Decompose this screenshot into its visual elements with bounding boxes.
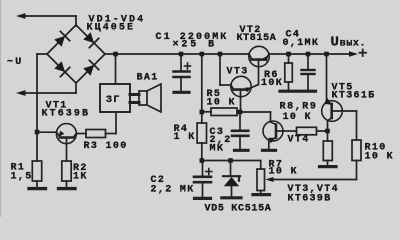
- svg-text:10 К: 10 К: [283, 112, 312, 123]
- svg-text:VT3: VT3: [227, 67, 249, 78]
- capacitor C4: [302, 54, 315, 90]
- svg-text:вых.: вых.: [340, 39, 366, 50]
- svg-text:10 К: 10 К: [207, 98, 236, 109]
- arrow R7 wiper: [265, 177, 273, 182]
- node rail C2: [200, 158, 205, 163]
- box ZG generator: [100, 84, 130, 112]
- resistor R9 vertical: [323, 131, 332, 165]
- resistor R5: [202, 108, 240, 116]
- svg-text:1,5: 1,5: [11, 172, 33, 183]
- diode VD4: [83, 60, 98, 75]
- resistor R6: [285, 54, 293, 90]
- resistor R7 trimmer: [257, 169, 265, 193]
- wire minus column: [37, 54, 47, 161]
- svg-text:×25 В: ×25 В: [173, 40, 218, 51]
- terminal arrow AC bottom: [16, 83, 76, 96]
- scan edge left: [0, 0, 1, 217]
- resistor R3: [86, 130, 106, 138]
- ground under C3: [235, 149, 249, 152]
- terminal arrow AC top: [16, 13, 76, 26]
- node bus C4: [306, 52, 311, 57]
- zener VD5: [223, 161, 240, 197]
- ground under R7: [253, 193, 270, 196]
- svg-text:КТ639В: КТ639В: [288, 194, 332, 205]
- ground under R2: [59, 187, 76, 190]
- svg-text:VT4: VT4: [288, 135, 310, 146]
- wire VT4 collector: [240, 112, 271, 122]
- diode VD1: [54, 31, 69, 46]
- svg-text:10 К: 10 К: [365, 152, 394, 163]
- transistor VT3: [231, 76, 259, 112]
- resistor R2: [62, 161, 71, 187]
- resistor R4: [197, 123, 206, 161]
- svg-text:0,1МК: 0,1МК: [283, 38, 320, 49]
- ground under R1: [29, 187, 46, 190]
- svg-text:ЗГ: ЗГ: [106, 95, 121, 106]
- resistor R8 horizontal: [283, 127, 328, 135]
- svg-text:ВА1: ВА1: [137, 73, 159, 84]
- svg-text:КЦ405Е: КЦ405Е: [87, 22, 136, 33]
- svg-text:~U: ~U: [7, 57, 24, 68]
- wire ZG to R3: [106, 112, 117, 134]
- node VT5 collector: [325, 129, 330, 134]
- speaker BA1: [130, 84, 161, 112]
- svg-text:1 К: 1 К: [174, 132, 196, 143]
- svg-text:КТ815А: КТ815А: [237, 33, 277, 44]
- wire VT3 base column: [219, 54, 221, 85]
- svg-text:1К: 1К: [73, 171, 88, 182]
- wire plus bus: [105, 53, 249, 55]
- svg-text:2,2 МК: 2,2 МК: [151, 185, 195, 196]
- node bus VT5: [324, 52, 329, 57]
- node minus-VT1: [35, 130, 40, 135]
- capacitor C1: [174, 54, 191, 91]
- wire to VT3: [220, 84, 231, 86]
- svg-text:R3 100: R3 100: [84, 141, 128, 152]
- label Uout: [331, 34, 367, 50]
- ground under C4: [301, 90, 316, 93]
- node R5 left: [200, 110, 205, 115]
- capacitor C3: [232, 112, 248, 149]
- ground under VT4: [263, 149, 276, 152]
- wire R7 wiper: [272, 179, 357, 181]
- node bus R6: [286, 52, 291, 57]
- node rail VD5: [228, 158, 233, 163]
- ground under VD5: [222, 196, 241, 199]
- capacitor C2: [194, 161, 212, 197]
- transistor VT2: [249, 46, 269, 84]
- resistor R1: [32, 161, 41, 187]
- label plus: [360, 50, 367, 57]
- svg-text:U: U: [331, 34, 340, 50]
- transistor VT5: [322, 98, 357, 131]
- node bus C1: [179, 52, 184, 57]
- wire R4R5 column: [201, 54, 203, 123]
- svg-text:VD5 КС515А: VD5 КС515А: [205, 204, 272, 215]
- wire bridge diamond: [47, 25, 105, 83]
- node bus ZG: [113, 52, 118, 57]
- svg-text:КТ361Б: КТ361Б: [332, 91, 376, 102]
- svg-text:10К: 10К: [261, 78, 283, 89]
- ground under C2: [195, 197, 211, 200]
- node VT3base R5 C3: [238, 110, 243, 115]
- wire output bus: [269, 53, 350, 55]
- svg-text:R8,R9: R8,R9: [280, 101, 318, 112]
- resistor R10: [352, 111, 361, 180]
- diode VD2: [83, 32, 98, 47]
- ground under R9: [320, 165, 337, 168]
- wire VT4 emitter: [268, 141, 270, 149]
- wire VT5 emitter feed: [326, 54, 328, 101]
- ground under C1: [174, 91, 189, 94]
- svg-text:10 К: 10 К: [269, 167, 298, 178]
- svg-text:МК: МК: [210, 143, 225, 154]
- transistor VT1: [37, 124, 86, 161]
- wire ZG feed: [115, 54, 117, 84]
- node bus R4R5: [200, 52, 205, 57]
- svg-text:КТ639В: КТ639В: [42, 109, 91, 120]
- terminal arrow output: [349, 51, 358, 57]
- node bus VT3: [218, 52, 223, 57]
- diode VD3: [54, 61, 69, 76]
- ground under R6: [280, 90, 298, 93]
- wire reference rail: [202, 161, 261, 170]
- transistor VT4: [263, 121, 283, 143]
